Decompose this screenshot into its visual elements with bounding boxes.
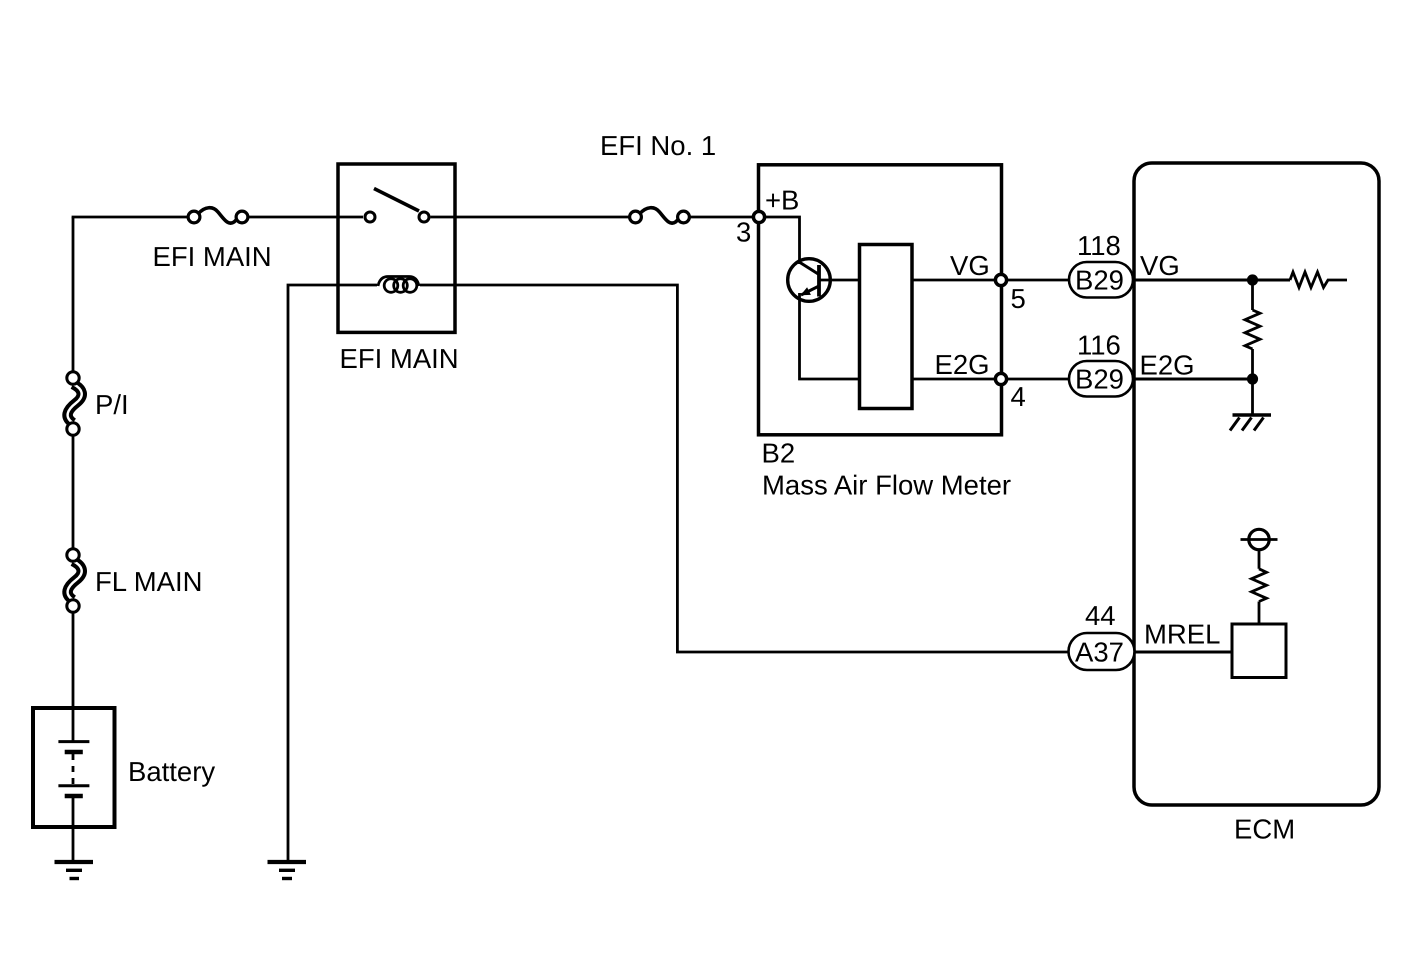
wire relay coil to A37 (420, 285, 1069, 652)
power symbol bar (1241, 538, 1278, 541)
wire driver to resistor (1258, 602, 1261, 625)
fuse EFI MAIN (188, 208, 248, 223)
wire FL MAIN to battery (72, 612, 75, 742)
node pin 3 circle (753, 211, 764, 222)
node pin 4 circle (995, 373, 1006, 384)
wire transistor base to sensing element (819, 279, 860, 282)
svg-text:B29: B29 (1075, 364, 1124, 395)
battery box (33, 708, 115, 827)
connector B29 pin 116 oval (1069, 361, 1133, 397)
MREL driver box (1232, 624, 1286, 678)
relay coil wire left + drop to ground (288, 285, 377, 860)
MAF box B2 (759, 165, 1002, 435)
wire E2G inside ECM (1135, 378, 1253, 381)
svg-text:44: 44 (1085, 600, 1116, 631)
svg-text:VG: VG (950, 250, 990, 281)
svg-text:+B: +B (765, 185, 799, 216)
svg-text:118: 118 (1077, 230, 1121, 261)
connector B29 pin 118 oval (1069, 262, 1133, 298)
node E2G junction dot (1247, 373, 1258, 384)
wire resistor to E2G row (1251, 349, 1254, 379)
relay switch contact right (419, 212, 429, 222)
transistor Q (MAF power) (788, 259, 831, 302)
wire pin4 to B29 (1008, 378, 1069, 381)
resistor VG pull-up horizontal (1290, 272, 1347, 288)
relay EFI MAIN box (338, 164, 455, 332)
ground chassis inside ECM (1230, 415, 1271, 431)
svg-text:Battery: Battery (128, 756, 215, 787)
svg-text:E2G: E2G (935, 349, 990, 380)
relay switch blade (374, 189, 419, 212)
wire transistor emitter down to E2G row (800, 293, 860, 379)
wire pin3 to transistor (766, 217, 800, 264)
svg-text:EFI No. 1: EFI No. 1 (600, 130, 716, 161)
svg-text:EFI MAIN: EFI MAIN (153, 241, 272, 272)
power symbol circle (1249, 529, 1269, 549)
svg-text:MREL: MREL (1144, 619, 1220, 650)
battery cells (58, 742, 89, 796)
svg-text:E2G: E2G (1140, 350, 1195, 381)
wire E2G inside MAF (912, 378, 994, 381)
wire resistor to power (1258, 550, 1261, 569)
wire junction down (1251, 280, 1254, 310)
svg-text:P/I: P/I (95, 389, 129, 420)
resistor VG-E2G vertical (1245, 310, 1260, 349)
wire battery internal bottom (72, 796, 75, 860)
wire between P/I and FL MAIN (72, 436, 75, 549)
wire relay switch to EFI No.1 fuse (431, 216, 630, 219)
relay switch contact left (365, 212, 375, 222)
ECM box (1134, 163, 1379, 805)
node VG junction dot (1247, 274, 1258, 285)
wire battery riser top segment (72, 217, 75, 372)
svg-text:3: 3 (736, 217, 751, 248)
wire MREL inside ECM (1135, 651, 1232, 654)
svg-text:FL MAIN: FL MAIN (95, 566, 202, 597)
svg-text:5: 5 (1011, 283, 1026, 314)
fusible link FL MAIN (67, 549, 82, 612)
wire VG inside MAF (912, 279, 994, 282)
wire fuse to MAF pin 3 (690, 216, 752, 219)
resistor MREL pull-up vertical (1252, 569, 1267, 602)
sensing element rectangle (860, 245, 913, 409)
wire pin5 to B29 (1008, 279, 1069, 282)
svg-text:Mass Air Flow Meter: Mass Air Flow Meter (762, 470, 1011, 501)
connector A37 pin 44 oval (1069, 633, 1135, 670)
wire top horizontal to EFI MAIN fuse (72, 216, 188, 219)
svg-text:B2: B2 (762, 438, 796, 469)
svg-text:ECM: ECM (1234, 814, 1295, 845)
wire to chassis ground (1251, 379, 1254, 415)
svg-text:EFI MAIN: EFI MAIN (340, 343, 459, 374)
fusible link P/I (67, 372, 82, 435)
node pin 5 circle (995, 274, 1006, 285)
svg-text:4: 4 (1011, 381, 1026, 412)
ground battery (55, 862, 94, 879)
svg-text:116: 116 (1077, 330, 1121, 361)
wire VG inside ECM (1135, 279, 1290, 282)
ground relay coil (268, 862, 307, 879)
svg-text:A37: A37 (1075, 637, 1124, 668)
svg-text:B29: B29 (1075, 265, 1124, 296)
fuse EFI No. 1 (630, 208, 690, 223)
relay coil (378, 277, 419, 293)
wire fuse to relay (248, 216, 363, 219)
svg-text:VG: VG (1140, 250, 1180, 281)
